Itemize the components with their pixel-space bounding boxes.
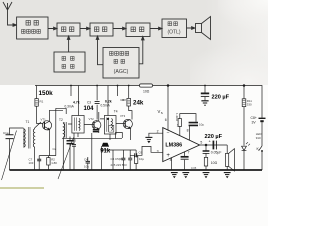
transformer T2: [56, 108, 66, 155]
pin4 ground wire: [171, 158, 173, 170]
capacitor under T3: [72, 145, 76, 147]
top supply rail: [35, 86, 262, 118]
wire arrowhead into input box: [13, 24, 17, 27]
text 混频: [62, 27, 66, 32]
svg-text:10µ: 10µ: [139, 157, 144, 161]
wire rail drop to R11: [243, 86, 245, 99]
arrow box2-box3: [80, 27, 90, 30]
grounds below bottom rail: [171, 173, 178, 179]
text 调谐电路: [22, 30, 26, 34]
IF transformer T4: [104, 116, 116, 135]
svg-text:8: 8: [187, 129, 189, 133]
zobel resistor 10ohm: [204, 157, 207, 166]
text 功放: [168, 22, 172, 26]
svg-text:VT1: VT1: [41, 118, 47, 122]
svg-text:3: 3: [157, 150, 159, 154]
bottom ground rail: [10, 169, 263, 171]
svg-text:330: 330: [247, 102, 252, 106]
svg-text:2: 2: [157, 129, 159, 133]
text 检波: [131, 27, 135, 32]
svg-text:0.05: 0.05: [191, 166, 197, 170]
zobel capacitor 0.05uF: [205, 145, 207, 151]
svg-text:4.7k: 4.7k: [73, 100, 80, 104]
svg-text:10Ω: 10Ω: [143, 89, 150, 93]
coupling capacitor C6: [135, 153, 137, 157]
svg-text:+: +: [166, 153, 170, 159]
svg-text:225 223 503: 225 223 503: [111, 163, 127, 167]
svg-text:R5: R5: [73, 139, 77, 143]
arrow box5-speaker: [187, 27, 196, 30]
text 控制: [114, 60, 118, 64]
transistor VT2: [92, 121, 101, 130]
AGC feedback wire: [62, 138, 122, 140]
text 自动增益: [110, 52, 114, 56]
text 中放: [95, 27, 99, 32]
svg-text:C8+: C8+: [251, 116, 257, 120]
wire rail drop to filter cap: [204, 86, 206, 93]
text 本机: [62, 57, 66, 61]
svg-text:1.2kΩ: 1.2kΩ: [175, 113, 179, 122]
rail drop to T3: [71, 86, 79, 116]
transistor VT3: [123, 119, 132, 128]
svg-text:R1: R1: [40, 100, 44, 104]
arrow box3-box4: [113, 27, 126, 30]
schematic middle section: [62, 85, 206, 170]
right edge wire with battery and switch: [261, 123, 263, 170]
svg-text:220 µF: 220 µF: [212, 94, 230, 100]
svg-text:C4: C4: [84, 157, 88, 161]
bypass cap pins 1-8 10uF: [189, 123, 198, 126]
svg-text:T1: T1: [26, 120, 30, 124]
LM386 section: [145, 85, 234, 171]
LED indicator: [242, 146, 247, 150]
antenna: [3, 2, 15, 25]
svg-text:24k: 24k: [133, 100, 144, 107]
svg-text:10µ: 10µ: [199, 123, 204, 127]
page background: [0, 0, 268, 226]
svg-text:103: 103: [29, 161, 34, 165]
tuning arrow C1a: [2, 131, 17, 181]
svg-text:(OTL): (OTL): [167, 30, 180, 36]
arrow AGC input from detector: [139, 39, 143, 64]
svg-text:R8: R8: [122, 98, 126, 102]
loudspeaker: [226, 145, 228, 153]
emitter node wire: [39, 141, 56, 156]
tuning gang capacitor C1a: [6, 135, 14, 139]
volume pot 91k (black wiper): [102, 145, 110, 147]
arrow box4-box5: [150, 27, 162, 30]
svg-text:910: 910: [256, 136, 261, 140]
capacitor 220uF filter: [201, 92, 209, 94]
resistor R11 330: [242, 99, 246, 107]
svg-text:10µ: 10µ: [84, 165, 89, 169]
svg-text:(AGC): (AGC): [114, 69, 129, 75]
transistor VT1: [42, 121, 51, 130]
text 振荡: [62, 65, 66, 69]
svg-text:C3: C3: [87, 100, 91, 104]
svg-text:91k: 91k: [100, 148, 111, 154]
block AGC: [103, 48, 139, 79]
svg-text:150k: 150k: [39, 90, 54, 97]
svg-text:1: 1: [177, 123, 179, 127]
ground under filter cap: [201, 100, 208, 102]
svg-text:104: 104: [84, 106, 95, 112]
small box under T4: [109, 125, 114, 132]
C5/RP cluster caps: [121, 158, 125, 160]
resistor 10ohm inline in rail: [140, 84, 153, 87]
speaker symbol block diagram: [196, 24, 202, 33]
pin7 bypass cap: [184, 152, 186, 170]
svg-text:S: S: [161, 111, 163, 115]
schematic left section: [2, 86, 74, 181]
svg-text:C1a: C1a: [3, 131, 9, 135]
block 混频: [57, 23, 80, 36]
block 输入调谐电路: [17, 17, 48, 39]
svg-text:−: −: [167, 131, 170, 137]
svg-text:LM386: LM386: [165, 143, 182, 149]
svg-text:T2: T2: [59, 118, 63, 122]
svg-text:3V: 3V: [252, 120, 257, 124]
block 中放: [90, 23, 113, 36]
svg-text:VT2: VT2: [89, 117, 95, 121]
text 输入: [26, 21, 30, 26]
battery 3V: [259, 117, 266, 119]
svg-text:0.5mA: 0.5mA: [101, 104, 111, 108]
svg-text:6: 6: [165, 118, 167, 122]
resistor R8 24k: [127, 98, 131, 106]
output capacitor 220uF: [212, 141, 214, 150]
svg-text:220 µF: 220 µF: [205, 134, 223, 140]
pin2 wire and ground: [149, 133, 163, 137]
svg-text:10Ω: 10Ω: [211, 161, 218, 165]
block 检波: [126, 23, 150, 37]
electrolytic cap below VT2: [93, 130, 99, 132]
block 功放(OTL): [162, 19, 187, 38]
svg-text:7: 7: [188, 150, 190, 154]
gain resistor pin1: [179, 126, 181, 135]
op-amp LM386 triangle: [163, 128, 200, 162]
svg-text:1.8K: 1.8K: [51, 161, 57, 165]
arrow AGC to IF amp: [98, 38, 104, 65]
detector loop: [116, 133, 123, 139]
svg-text:C4 C5(RP): C4 C5(RP): [111, 157, 125, 161]
svg-text:0.05µF: 0.05µF: [211, 151, 222, 155]
caption baseline bottom left: [0, 187, 44, 189]
top gray band: [0, 0, 268, 85]
arrow local osc to mixer: [68, 38, 70, 52]
schematic text labels: [3, 89, 261, 170]
emitter column C4 10u: [91, 133, 93, 170]
block 本机振荡: [54, 52, 85, 72]
svg-text:5: 5: [200, 141, 202, 145]
junction dots on rail: [70, 85, 206, 87]
resistor R1 150k: [36, 86, 38, 99]
switch K: [259, 146, 262, 151]
capacitor C7 103: [37, 159, 41, 161]
tuning gang capacitor C1b: [67, 141, 74, 144]
output pin5 wire: [200, 144, 228, 146]
svg-text:C6: C6: [139, 150, 143, 154]
arrow box1-box2: [48, 27, 57, 30]
resistor R2 1.8K: [47, 158, 50, 165]
wire bus above cluster: [102, 146, 137, 170]
transformer T1: [23, 128, 25, 148]
svg-text:T4: T4: [114, 110, 118, 114]
supply Vs wire pin6: [167, 86, 169, 131]
IF transformer T3: [72, 116, 84, 134]
RP pot right: [134, 156, 137, 163]
svg-text:0.3mA: 0.3mA: [65, 104, 75, 108]
svg-text:C2: C2: [53, 147, 57, 151]
capacitor C3 inline: [96, 86, 98, 120]
rail drops to T4: [108, 86, 118, 116]
svg-text:VT3: VT3: [120, 114, 126, 118]
